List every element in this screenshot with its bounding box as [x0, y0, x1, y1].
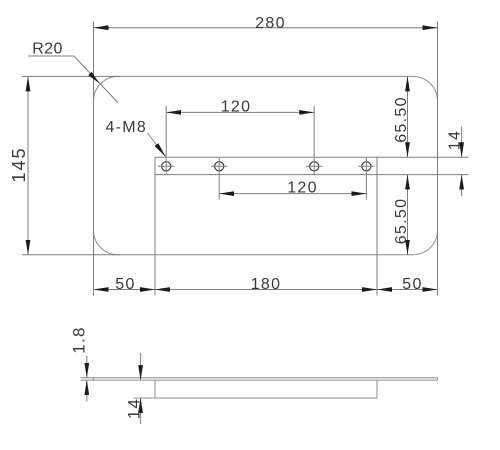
- hole 2: [215, 162, 224, 171]
- dimension 65.50 lower line: [407, 175, 409, 255]
- R20 leader shoulder: [28, 55, 74, 57]
- svg-text:65.50: 65.50: [393, 96, 410, 143]
- dimension 14 right lower arrow: [461, 175, 463, 196]
- extension line strip left down: [154, 175, 156, 296]
- strip right edge: [376, 157, 378, 174]
- side view plate right end: [437, 378, 439, 380]
- svg-text:1.8: 1.8: [70, 326, 89, 354]
- svg-text:14: 14: [447, 130, 464, 150]
- svg-text:4-M8: 4-M8: [105, 119, 147, 136]
- svg-text:280: 280: [255, 15, 286, 32]
- extension line left (280 top / 50 bottom), x=93.5: [93, 22, 95, 296]
- svg-text:145: 145: [9, 146, 29, 182]
- strip top edge + extension to 14 dim: [155, 156, 469, 158]
- hole 1: [162, 162, 171, 171]
- dimension 14 side lower arrow: [140, 398, 142, 424]
- hole 4: [362, 162, 371, 171]
- extension line hole2 down: [218, 175, 220, 200]
- side view strip right edge: [376, 380, 378, 398]
- side view strip left edge: [154, 380, 156, 398]
- strip left edge: [154, 157, 156, 174]
- extension line bottom edge (145 dim), y=254.8: [22, 254, 120, 256]
- extension line hole1 up: [165, 106, 167, 157]
- dimension 280 line: [94, 27, 438, 29]
- dimension 120 top line: [166, 111, 314, 113]
- extension line strip right down: [376, 175, 378, 296]
- extension line top edge (145 dim), y=76.4: [22, 75, 120, 77]
- svg-text:50: 50: [115, 276, 135, 293]
- svg-text:180: 180: [251, 276, 282, 293]
- side view strip bottom edge + extension: [134, 397, 378, 399]
- svg-text:14: 14: [125, 398, 144, 420]
- dimension 145 line: [27, 76, 29, 254]
- svg-text:65.50: 65.50: [393, 198, 410, 245]
- dimension 1.8 lower arrow: [86, 380, 88, 401]
- dimension 180 line: [155, 289, 377, 291]
- svg-text:R20: R20: [32, 41, 63, 58]
- svg-text:50: 50: [402, 276, 422, 293]
- extension line hole4 down: [365, 175, 367, 200]
- dimension 50 left line: [94, 289, 156, 291]
- R20 arrowhead: [88, 72, 99, 83]
- side view plate top edge + extension: [81, 377, 438, 379]
- dimension 50 right line: [377, 289, 438, 291]
- extension line right (280 top / 50 bottom), x=437.5: [437, 22, 439, 296]
- R20 leader diagonal: [74, 56, 118, 103]
- dimension 14 right upper arrow: [461, 127, 463, 158]
- hole 3: [310, 162, 319, 171]
- dimension 1.8 upper arrow: [86, 356, 88, 378]
- svg-text:120: 120: [287, 179, 318, 196]
- dimension 65.50 upper line: [407, 76, 409, 157]
- dimension 120 bottom line: [219, 193, 366, 195]
- plate outline (top view, 280x145, R20 corners): [94, 76, 438, 254]
- svg-text:120: 120: [221, 98, 252, 115]
- dimension 14 side upper arrow: [140, 353, 142, 380]
- side view plate left end: [93, 378, 95, 380]
- strip bottom edge + extension to 14 dim: [155, 174, 469, 176]
- extension line hole3 up: [313, 106, 315, 157]
- side view plate bottom edge + extension: [81, 379, 438, 381]
- 4-M8 leader: [148, 133, 166, 157]
